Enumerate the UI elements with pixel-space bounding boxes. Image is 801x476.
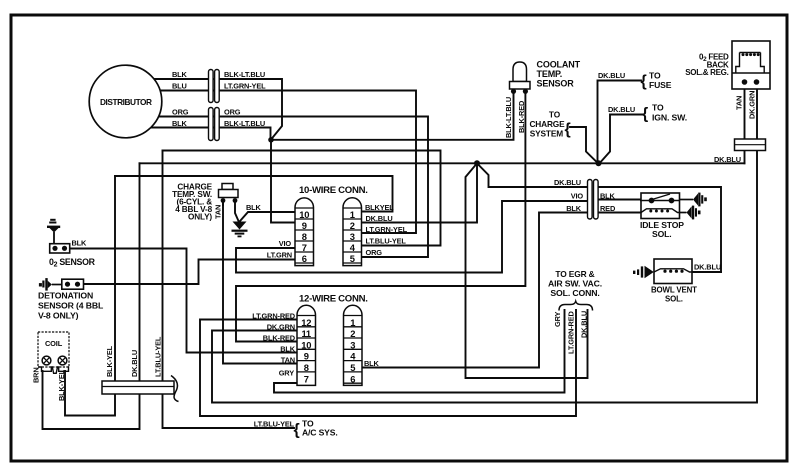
svg-text:3: 3 [350,339,355,350]
svg-text:{: { [565,121,571,138]
svg-text:DK.BLU: DK.BLU [714,155,741,164]
svg-text:IGN. SW.: IGN. SW. [652,113,687,123]
svg-text:SOL.: SOL. [665,295,683,304]
svg-text:RED: RED [600,204,616,213]
svg-text:BLK-RED: BLK-RED [263,334,296,343]
svg-text:FUSE: FUSE [649,80,672,90]
svg-text:GRY: GRY [553,311,562,327]
svg-text:2: 2 [350,220,355,231]
svg-text:COIL: COIL [45,339,63,348]
svg-text:TO: TO [649,71,661,81]
svg-text:TO: TO [549,110,561,120]
svg-text:8: 8 [302,231,307,242]
svg-text:BLK-LT.BLU: BLK-LT.BLU [504,97,513,138]
svg-text:BLK: BLK [280,345,296,354]
svg-text:6: 6 [302,253,307,264]
svg-text:9: 9 [302,220,307,231]
svg-text:VIO: VIO [571,192,584,201]
svg-text:BLK-LT.BLU: BLK-LT.BLU [224,119,265,128]
svg-text:VIO: VIO [279,239,292,248]
svg-text:SOL.& REG.: SOL.& REG. [685,68,728,77]
svg-text:BLKYEL: BLKYEL [365,203,394,212]
svg-text:7: 7 [304,373,309,384]
svg-text:BLK: BLK [246,203,262,212]
svg-text:1: 1 [350,317,355,328]
svg-text:DISTRIBUTOR: DISTRIBUTOR [100,97,152,107]
svg-text:TO EGR &: TO EGR & [555,269,594,279]
svg-text:8: 8 [304,362,309,373]
svg-text:TAN: TAN [735,96,744,110]
svg-text:DK.BLU: DK.BLU [694,263,721,272]
svg-text:7: 7 [302,242,307,253]
svg-text:DK.BLU: DK.BLU [608,105,635,114]
svg-text:A/C SYS.: A/C SYS. [302,428,338,438]
svg-text:TAN: TAN [281,356,295,365]
svg-text:DETONATION: DETONATION [38,291,93,301]
svg-text:ORG: ORG [366,248,383,257]
svg-text:BLK: BLK [600,192,616,201]
svg-text:TO: TO [652,103,664,113]
svg-text:{: { [642,106,648,123]
svg-text:LT.GRN-YEL: LT.GRN-YEL [366,225,408,234]
svg-text:ORG: ORG [224,108,241,117]
svg-text:DK.BLU: DK.BLU [554,178,581,187]
svg-text:LT.GRN-RED: LT.GRN-RED [252,312,296,321]
svg-text:BLK: BLK [172,70,188,79]
svg-text:BLK: BLK [172,119,188,128]
svg-text:COOLANT: COOLANT [537,60,581,70]
svg-text:BLK: BLK [72,239,88,248]
svg-text:ONLY): ONLY) [188,213,212,222]
svg-text:DK.BLU: DK.BLU [598,71,625,80]
svg-text:DK.BLU: DK.BLU [366,214,393,223]
svg-text:5: 5 [350,253,355,264]
svg-text:2: 2 [350,328,355,339]
svg-text:BLK: BLK [364,359,380,368]
svg-text:TAN: TAN [214,205,223,219]
svg-text:V-8 ONLY): V-8 ONLY) [38,311,79,321]
svg-text:BLK-YEL: BLK-YEL [105,345,114,377]
svg-text:BLU: BLU [172,82,187,91]
svg-text:BOWL VENT: BOWL VENT [651,286,697,295]
svg-text:12: 12 [301,317,311,328]
svg-text:ORG: ORG [172,108,189,117]
svg-text:SENSOR: SENSOR [537,78,575,88]
svg-text:SYSTEM: SYSTEM [530,129,563,139]
svg-text:DK.BLU: DK.BLU [130,350,139,377]
svg-text:BRN: BRN [32,367,41,383]
svg-text:9: 9 [304,351,309,362]
svg-text:BLK: BLK [566,204,582,213]
svg-text:LT.GRN-YEL: LT.GRN-YEL [224,82,266,91]
svg-text:LT.BLU-YEL: LT.BLU-YEL [366,237,407,246]
svg-text:3: 3 [350,231,355,242]
svg-text:11: 11 [302,328,311,339]
svg-text:LT.BLU-YEL: LT.BLU-YEL [254,420,295,429]
svg-text:LT.GRN-RED: LT.GRN-RED [567,310,576,354]
svg-text:LT.GRN: LT.GRN [267,251,292,260]
svg-text:6: 6 [350,373,355,384]
svg-text:SENSOR (4 BBL: SENSOR (4 BBL [38,301,104,311]
svg-text:1: 1 [350,209,355,220]
svg-text:SOL.: SOL. [652,229,671,239]
svg-text:BLK-YEL: BLK-YEL [57,369,66,401]
svg-text:BLK-RED: BLK-RED [517,100,526,133]
svg-text:BLK-LT.BLU: BLK-LT.BLU [224,70,265,79]
svg-text:12-WIRE CONN.: 12-WIRE CONN. [299,294,368,305]
svg-text:10-WIRE CONN.: 10-WIRE CONN. [299,185,368,196]
svg-text:{: { [294,422,300,439]
svg-text:5: 5 [350,362,355,373]
svg-text:GRY: GRY [279,369,295,378]
svg-text:LT.BLU-YEL: LT.BLU-YEL [154,336,163,377]
svg-text:AIR SW. VAC.: AIR SW. VAC. [548,279,602,289]
svg-text:SOL. CONN.: SOL. CONN. [550,288,599,298]
svg-text:{: { [641,73,647,90]
svg-text:DK.GRN: DK.GRN [267,323,295,332]
svg-text:10: 10 [301,339,311,350]
svg-text:10: 10 [299,209,309,220]
svg-text:DK.BLU: DK.BLU [580,311,589,338]
svg-text:DK.GRN: DK.GRN [748,91,757,119]
